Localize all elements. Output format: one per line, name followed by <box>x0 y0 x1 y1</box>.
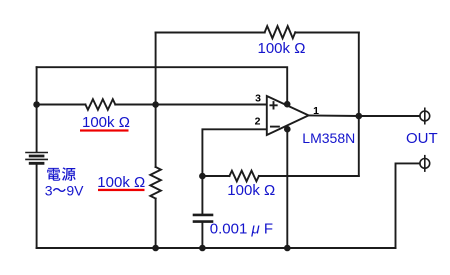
wire: non-inverting input rail <box>37 104 267 106</box>
svg-text:100k Ω: 100k Ω <box>82 114 130 131</box>
svg-text:LM358N: LM358N <box>302 130 355 146</box>
svg-text:100k Ω: 100k Ω <box>227 182 275 199</box>
wire: right vertical from top rail to output node and down to R4 <box>358 33 360 177</box>
node: battery+ / R2 tap <box>33 101 40 108</box>
svg-text:3: 3 <box>45 183 53 199</box>
wire: op-amp V- pin to ground <box>286 130 288 249</box>
red underline under R3 label <box>98 189 145 191</box>
svg-text:100k Ω: 100k Ω <box>97 174 145 191</box>
resistor R2 100k (bias upper) <box>85 99 115 110</box>
wire: RC node to R4 and up to output <box>202 175 358 177</box>
node: op-amp V+ pin <box>284 101 291 108</box>
svg-text:2: 2 <box>255 116 261 128</box>
wire: left rail battery bottom to ground <box>36 164 38 248</box>
wire: ground rail <box>37 247 396 249</box>
resistor R4 100k (integrator) <box>229 171 259 182</box>
resistor R1 100k (top feedback) <box>265 26 296 38</box>
node: output <box>356 113 363 120</box>
svg-text:0.001 μ F: 0.001 μ F <box>210 220 273 237</box>
wire: V+ supply rail from battery to op-amp <box>37 67 288 103</box>
node: V- to ground <box>284 245 291 252</box>
wire: lower OUT terminal to ground <box>396 163 420 248</box>
op-amp plus input marker <box>270 102 276 108</box>
wire: top feedback rail <box>156 32 359 34</box>
wire: output pin1 to OUT terminal <box>309 114 420 117</box>
node: pin3 bias junction <box>152 101 159 108</box>
label battery 電源 (power source) <box>47 168 60 181</box>
wire: mid vertical through R3 <box>155 33 157 249</box>
node: C1 to ground <box>199 245 206 252</box>
terminal J1 OUT+ <box>420 108 430 123</box>
battery BT1 (power source) <box>26 153 47 164</box>
node: C1/R4 junction <box>199 173 206 180</box>
terminal J2 OUT- <box>420 156 430 171</box>
svg-text:9V: 9V <box>66 183 84 199</box>
wire: inverting input to C1 node <box>202 129 266 214</box>
svg-text:1: 1 <box>313 105 319 117</box>
op-amp U1 LM358N <box>267 96 309 135</box>
resistor R3 100k (bias lower, vertical) <box>150 167 161 199</box>
node: R3 to ground <box>152 245 159 252</box>
wire: C1 bottom to ground <box>201 223 203 248</box>
wire: left rail battery top <box>36 67 38 152</box>
svg-text:3: 3 <box>255 93 261 105</box>
node: op-amp V- pin <box>284 126 291 133</box>
red underline under R2 label <box>80 129 129 131</box>
op-amp minus input marker <box>271 126 279 128</box>
svg-text:100k Ω: 100k Ω <box>258 40 306 57</box>
svg-text:OUT: OUT <box>406 130 438 147</box>
capacitor C1 0.001uF <box>194 215 212 222</box>
